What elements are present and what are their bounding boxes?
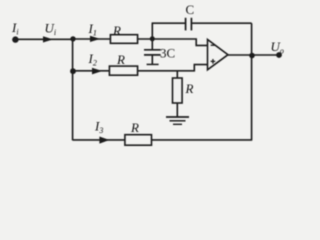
capacitor C (186, 18, 192, 31)
op-amp plus pin mark (211, 59, 216, 64)
svg-text:Uo: Uo (271, 39, 284, 55)
capacitor 3C (144, 40, 161, 64)
resistor R2 (109, 66, 137, 75)
wire R2 to noninverting jog (138, 65, 208, 71)
svg-text:R: R (185, 81, 194, 96)
wire I2 branch to R2 (73, 70, 110, 72)
wire stem R4 bottom (176, 103, 178, 117)
node output junction (249, 53, 255, 59)
node junction I1 (70, 36, 75, 41)
op-amp minus pin mark (211, 45, 215, 46)
wire R1 to inverting jog (138, 39, 208, 45)
arrow I3 (99, 137, 109, 144)
terminal output (276, 52, 282, 58)
svg-text:I3: I3 (94, 119, 103, 135)
svg-text:Ii: Ii (11, 20, 19, 36)
svg-text:R: R (130, 120, 139, 135)
wire top right of C (191, 22, 251, 24)
wire top left of C (152, 22, 186, 24)
node A junction (150, 36, 155, 41)
wire right vertical feedback (251, 23, 253, 140)
ground (166, 117, 189, 124)
svg-text:Ui: Ui (45, 21, 57, 37)
wire bottom rail right of R3 (152, 139, 253, 141)
op-amp U1 (208, 40, 229, 70)
resistor R3 (125, 135, 152, 146)
svg-text:R: R (112, 23, 121, 38)
wire bottom rail left of R3 (73, 139, 126, 141)
terminal input (12, 36, 18, 42)
wire stem R4 top (176, 71, 178, 78)
arrow I1 (90, 36, 100, 42)
arrow I2 (92, 68, 102, 75)
resistor R4 vertical (173, 78, 183, 103)
wire left vertical bus (72, 39, 74, 140)
node junction I2 (70, 68, 76, 74)
svg-text:I1: I1 (88, 21, 97, 37)
wire output rail (228, 54, 280, 56)
wire I1 branch to R1 (73, 38, 111, 40)
wire input horizontal (15, 38, 73, 40)
wire node A up to C (151, 23, 153, 39)
svg-text:C: C (186, 2, 195, 17)
svg-text:I2: I2 (88, 51, 97, 67)
arrow input current (43, 36, 53, 42)
svg-text:3C: 3C (160, 46, 175, 61)
resistor R1 (110, 35, 137, 44)
svg-text:R: R (116, 52, 125, 67)
